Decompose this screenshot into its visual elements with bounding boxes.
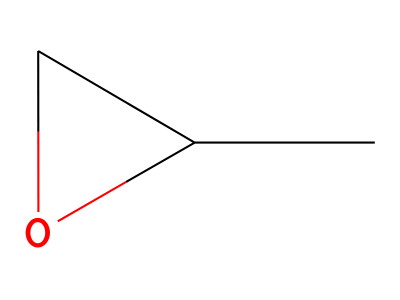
bond C1-O oxygen half (red segment) (37, 132, 39, 213)
bond C1-C2 (ring edge, black) (38, 51, 195, 143)
bond C2-O oxygen half (red segment) (58, 182, 126, 221)
bond C2-CH3 methyl (black) (195, 142, 375, 144)
bond C2-O carbon half (black segment) (126, 143, 195, 182)
bond C1-O carbon half (black segment) (37, 51, 39, 132)
atom label O (red oxygen) (26, 218, 50, 248)
